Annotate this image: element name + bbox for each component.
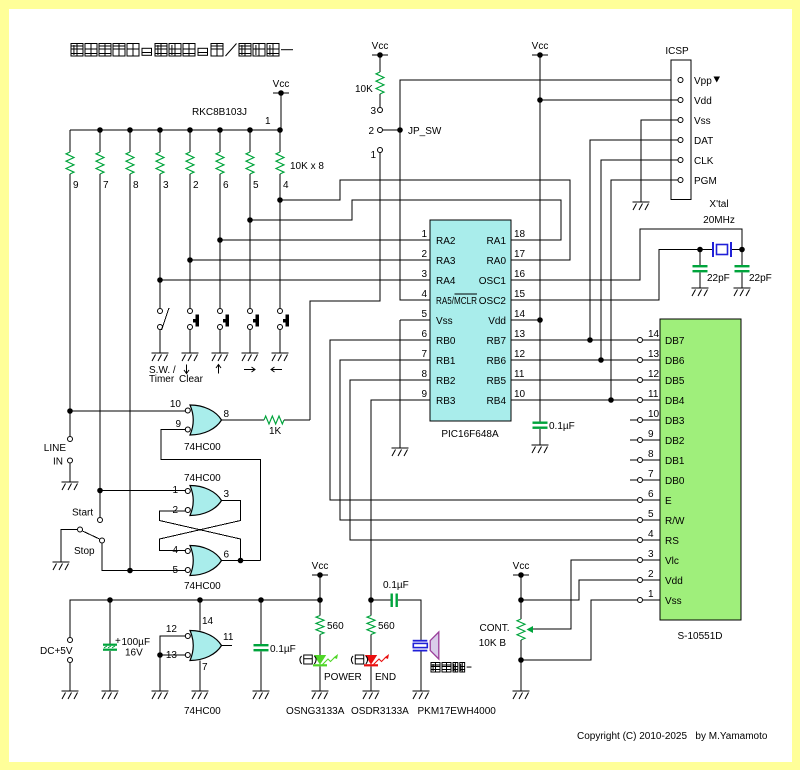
wire 100uF to ground <box>109 651 111 691</box>
Vcc symbol right <box>532 41 549 58</box>
wire switch to ground x=220 <box>219 330 221 353</box>
ground below gate D <box>192 691 209 699</box>
junction rail/gate D Vcc <box>197 597 203 603</box>
crystal X'tal symbol <box>712 242 732 257</box>
ICSP connector box <box>671 60 691 200</box>
wire switch to ground x=280 <box>279 330 281 353</box>
resistor 10K (network element 2) <box>186 152 194 174</box>
ground below 22pF <box>734 288 751 296</box>
svg-text:4: 4 <box>283 180 289 191</box>
svg-text:RB1: RB1 <box>436 356 456 367</box>
wire LCD pin DB4 stub <box>643 399 660 401</box>
svg-text:Vdd: Vdd <box>488 316 506 327</box>
svg-text:4: 4 <box>172 545 178 556</box>
svg-text:IN: IN <box>53 457 63 468</box>
wire row to RA2 (pin1) <box>220 239 430 241</box>
svg-text:PIC16F648A: PIC16F648A <box>441 429 499 440</box>
svg-text:DB5: DB5 <box>665 376 685 387</box>
wire col250 to RA1 (pin18) <box>250 200 561 240</box>
wire RB1 to LCD R/W <box>340 360 637 520</box>
wire col280 to RA0 (pin17) <box>280 180 570 260</box>
resistor 10K (network element 7) <box>96 152 104 174</box>
pot wiper arrow <box>527 626 534 633</box>
ground below switch x=190 <box>182 353 199 361</box>
svg-text:X'tal: X'tal <box>709 199 728 210</box>
svg-text:22pF: 22pF <box>749 273 772 284</box>
wire LCD Vdd to Vcc <box>521 580 637 600</box>
resistor 560 POWER <box>316 616 324 635</box>
junction col250/RA1 row <box>247 217 253 223</box>
junction RB3/END <box>368 597 374 603</box>
svg-text:4: 4 <box>648 529 654 540</box>
wire PGM to RB4 <box>611 180 678 400</box>
Vcc symbol above pot <box>513 561 530 578</box>
junction pot bottom/Vss <box>518 657 524 663</box>
JP_SW pin 1 <box>378 148 383 153</box>
NAND gate U1b 74HC00 <box>190 486 222 516</box>
wire rail to 100uF <box>109 600 111 644</box>
svg-text:OSC1: OSC1 <box>479 276 507 287</box>
wire gate D pin7 to ground <box>199 661 201 692</box>
wire RB6 to LCD DB6 <box>511 359 637 361</box>
wire toggle common to ground <box>61 530 77 563</box>
svg-text:DC+5V: DC+5V <box>40 646 73 657</box>
capacitor 22pF <box>693 265 708 272</box>
junction bus x=130 <box>127 127 133 133</box>
resistor 10K (network element 6) <box>216 152 224 174</box>
svg-text:11: 11 <box>648 389 659 400</box>
junction PGM/RB4 <box>608 397 614 403</box>
JP_SW pin 2 <box>378 128 383 133</box>
wire RB2 to LCD RS <box>350 380 637 540</box>
LED red END <box>364 654 389 666</box>
ICSP pin CLK <box>678 158 683 163</box>
svg-text:4: 4 <box>421 289 427 300</box>
wire col7 down to Start contact <box>99 174 101 517</box>
wire bus to resistor col 250 <box>249 130 251 152</box>
svg-text:10: 10 <box>514 389 526 400</box>
wire LED to ground <box>319 667 321 692</box>
svg-text:10: 10 <box>170 399 182 410</box>
switch top contact x=280 <box>278 309 283 314</box>
wire rail to 0.1uF <box>260 600 262 644</box>
wire Vss stub <box>400 319 430 321</box>
ground below POWER LED <box>312 691 329 699</box>
svg-text:PKM17EWH4000: PKM17EWH4000 <box>418 706 497 717</box>
svg-text:Stop: Stop <box>74 546 95 557</box>
ground below 0.1uF <box>253 691 270 699</box>
svg-text:10: 10 <box>648 409 660 420</box>
svg-text:RB2: RB2 <box>436 376 456 387</box>
junction LINE IN node <box>67 408 73 414</box>
wire ICSP Vss to ground <box>641 120 678 202</box>
wire LINE IN to gate A pin10 <box>70 410 185 412</box>
wire LCD pin RS stub <box>643 539 660 541</box>
svg-text:Vdd: Vdd <box>665 576 683 587</box>
svg-text:RA2: RA2 <box>436 236 456 247</box>
wire RB5 to LCD DB5 <box>511 379 637 381</box>
capacitor 22pF <box>735 265 750 272</box>
toggle lever S.W. <box>162 308 170 330</box>
wire col 190 down to switch <box>189 174 191 308</box>
junction crystal right <box>739 247 745 253</box>
ground below ICSP Vss <box>633 202 650 210</box>
wire gate A output to 1K <box>221 419 264 421</box>
svg-text:6: 6 <box>224 550 230 561</box>
svg-text:8: 8 <box>421 369 427 380</box>
resistor 1K <box>264 416 284 424</box>
svg-text:RB0: RB0 <box>436 336 456 347</box>
wire ICSP Vdd <box>540 99 678 101</box>
LCD pin R/W <box>638 518 643 523</box>
wire DAT to RB7 <box>590 140 678 340</box>
wire row to RA4 (pin3) <box>160 279 430 281</box>
NAND gate U1d 74HC00 <box>190 631 222 661</box>
wire gate A pin9 from gate C out <box>161 430 261 561</box>
svg-text:100µF: 100µF <box>122 637 151 648</box>
wire LCD pin DB2 stub <box>643 439 660 441</box>
svg-text:Vcc: Vcc <box>273 79 290 90</box>
label Vpp triangle <box>714 77 721 83</box>
wire DC jack to ground <box>69 663 71 691</box>
ground below switch x=220 <box>212 353 229 361</box>
wire open stub DB2 <box>630 439 637 441</box>
wire open stub DB0 <box>630 479 637 481</box>
wire Vpp/MCLR net <box>400 80 677 300</box>
svg-text:Vss: Vss <box>694 116 711 127</box>
svg-text:2: 2 <box>421 249 427 260</box>
wire open stub DB1 <box>630 459 637 461</box>
svg-text:OSDR3133A: OSDR3133A <box>351 706 409 717</box>
junction col8/Stop row <box>127 568 133 574</box>
svg-text:CONT.: CONT. <box>480 623 510 634</box>
wire Vcc column to Vdd <box>539 55 541 320</box>
wire LCD pin Vdd stub <box>643 579 660 581</box>
wire Vcc to pot <box>520 575 522 619</box>
svg-text:RKC8B103J: RKC8B103J <box>192 107 247 118</box>
svg-text:11: 11 <box>223 632 234 643</box>
svg-text:R/W: R/W <box>665 516 685 527</box>
svg-text:1: 1 <box>648 589 654 600</box>
svg-text:RA4: RA4 <box>436 276 456 287</box>
wire Vlc to pot wiper <box>532 560 637 629</box>
wire Vcc to bus <box>280 93 282 130</box>
svg-text:14: 14 <box>514 309 526 320</box>
junction rail end/Vcc <box>317 597 323 603</box>
svg-text:3: 3 <box>421 269 427 280</box>
svg-text:3: 3 <box>648 549 654 560</box>
svg-text:560: 560 <box>378 621 395 632</box>
svg-text:560: 560 <box>327 621 344 632</box>
junction crystal left <box>697 247 703 253</box>
switch bottom contact x=280 <box>278 325 283 330</box>
wire LCD Vss to pot bottom <box>521 600 637 660</box>
ground below decoupling cap <box>532 445 549 453</box>
svg-text:16V: 16V <box>125 648 143 659</box>
svg-text:Vcc: Vcc <box>513 561 530 572</box>
ground below LINE IN <box>62 482 79 490</box>
resistor 10K pull-up <box>376 72 384 94</box>
wire 0.1uF to ground <box>260 652 262 692</box>
svg-text:1K: 1K <box>269 426 282 437</box>
svg-text:7: 7 <box>421 349 427 360</box>
resistor 10K (network element 8) <box>126 152 134 174</box>
junction rail/100uF <box>107 597 113 603</box>
svg-text:DB3: DB3 <box>665 416 685 427</box>
wire RB3 down to END LED <box>371 400 430 600</box>
wire gate B pin2 cross-couple <box>160 511 241 561</box>
wire switch to ground x=160 <box>159 330 161 353</box>
svg-text:8: 8 <box>224 409 230 420</box>
svg-text:LINE: LINE <box>44 443 67 454</box>
LCD pin Vdd <box>638 578 643 583</box>
wire to 560 END <box>370 600 372 616</box>
svg-text:6: 6 <box>421 329 427 340</box>
LCD pin DB4 <box>638 398 643 403</box>
wire 10K to JP pin3 <box>379 94 381 107</box>
ICSP pin DAT <box>678 138 683 143</box>
junction DAT/RB7 <box>587 337 593 343</box>
svg-text:Copyright (C) 2010-2025 by M: Copyright (C) 2010-2025 by M.Yamamoto <box>577 731 768 742</box>
LCD pin DB7 <box>638 338 643 343</box>
svg-text:7: 7 <box>202 662 208 673</box>
svg-text:22pF: 22pF <box>707 273 730 284</box>
LCD pin DB5 <box>638 378 643 383</box>
svg-text:RA1: RA1 <box>487 236 507 247</box>
wire top bus of resistor network <box>70 129 281 131</box>
wire JP pin2 to junction <box>383 129 400 131</box>
junction col280/RA0 row <box>277 197 283 203</box>
wire gate C output <box>221 560 261 562</box>
wire pot to ground <box>520 640 522 691</box>
svg-text:DB6: DB6 <box>665 356 685 367</box>
switch top contact x=160 <box>158 309 163 314</box>
svg-text:1: 1 <box>265 116 271 127</box>
wire LCD pin DB5 stub <box>643 379 660 381</box>
wire OSC1 to crystal <box>511 229 742 280</box>
NAND gate U1a 74HC00 <box>190 405 222 435</box>
toggle lever Start/Stop <box>83 531 100 539</box>
junction Vcc/PIC Vdd <box>537 317 543 323</box>
svg-text:POWER: POWER <box>324 672 362 683</box>
svg-text:6: 6 <box>223 180 229 191</box>
svg-text:74HC00: 74HC00 <box>184 442 221 453</box>
svg-text:11: 11 <box>514 369 525 380</box>
wire LCD pin E stub <box>643 499 660 501</box>
svg-text:Vss: Vss <box>665 596 682 607</box>
junction Start node <box>97 488 103 494</box>
ground below switch x=280 <box>272 353 289 361</box>
ICSP pin Vpp <box>678 78 683 83</box>
wire LCD pin R/W stub <box>643 519 660 521</box>
label left arrow <box>271 367 282 372</box>
junction JP_SW node <box>397 127 403 133</box>
svg-text:3: 3 <box>163 180 169 191</box>
Stop contact <box>100 538 105 543</box>
wire RB7 to LCD DB7 <box>511 339 637 341</box>
wire col 220 down to switch <box>219 174 221 308</box>
svg-text:E: E <box>665 496 672 507</box>
potentiometer CONT 10K B <box>517 619 525 640</box>
svg-text:RA3: RA3 <box>436 256 456 267</box>
ground below PIC Vss <box>392 448 409 456</box>
svg-text:2: 2 <box>368 126 374 137</box>
ground below DC+5V <box>62 691 79 699</box>
wire rail to gate D pin14 <box>199 600 201 631</box>
svg-text:8: 8 <box>648 449 654 460</box>
svg-text:7: 7 <box>648 469 654 480</box>
switch bottom contact x=220 <box>218 325 223 330</box>
LCD pin Vlc <box>638 558 643 563</box>
wire bus to resistor col 160 <box>159 130 161 152</box>
capacitor 0.1uF <box>254 644 269 651</box>
svg-text:END: END <box>375 672 396 683</box>
wire CLK to RB6 <box>601 160 678 360</box>
svg-text:DB0: DB0 <box>665 476 685 487</box>
ground below switch x=160 <box>152 353 169 361</box>
svg-text:12: 12 <box>648 369 660 380</box>
wire gate D output stub <box>222 645 232 647</box>
wire crystal to 22pF x=742 <box>741 250 743 266</box>
wire open stub DB3 <box>630 419 637 421</box>
wire switch to ground x=250 <box>249 330 251 353</box>
wire Vdd stub <box>511 319 540 321</box>
svg-text:DAT: DAT <box>694 136 713 147</box>
capacitor 0.1uF buzzer coupling <box>391 594 398 608</box>
LCD module S-10551D body <box>660 319 741 620</box>
label down arrow <box>184 365 189 374</box>
switch top contact x=190 <box>188 309 193 314</box>
ICSP pin PGM <box>678 178 683 183</box>
wire 22pF to ground <box>699 273 701 289</box>
svg-text:10K x 8: 10K x 8 <box>290 161 324 172</box>
svg-text:DB4: DB4 <box>665 396 685 407</box>
wire LCD pin DB3 stub <box>643 419 660 421</box>
svg-text:Vss: Vss <box>436 316 453 327</box>
svg-text:17: 17 <box>514 249 526 260</box>
LCD pin E <box>638 498 643 503</box>
junction col160/RA4 row <box>157 277 163 283</box>
svg-text:RS: RS <box>665 536 679 547</box>
wire bus to resistor col 100 <box>99 130 101 152</box>
junction bus x=160 <box>157 127 163 133</box>
junction bus x=250 <box>247 127 253 133</box>
ICSP pin Vss <box>678 118 683 123</box>
junction bus x=100 <box>97 127 103 133</box>
wire switch to ground x=190 <box>189 330 191 353</box>
svg-text:2: 2 <box>193 180 199 191</box>
junction gate D inputs <box>157 652 163 658</box>
junction bus x=190 <box>187 127 193 133</box>
pushbutton actuator up <box>223 315 229 327</box>
svg-text:0.1µF: 0.1µF <box>549 421 575 432</box>
svg-text:RA5/MCLR: RA5/MCLR <box>436 296 477 307</box>
LCD pin DB2 <box>638 438 643 443</box>
svg-text:1: 1 <box>421 229 427 240</box>
wire LINE IN to ground <box>69 464 71 483</box>
svg-text:Vcc: Vcc <box>532 41 549 52</box>
svg-text:9: 9 <box>648 429 654 440</box>
Vcc symbol above 10K <box>372 41 389 58</box>
LCD pin Vss <box>638 598 643 603</box>
wire col 160 down to switch <box>159 174 161 308</box>
svg-text:RB7: RB7 <box>487 336 507 347</box>
ground below END LED <box>363 691 380 699</box>
wire col 250 down to switch <box>249 174 251 308</box>
wire bus to resistor col 190 <box>189 130 191 152</box>
wire LCD pin DB6 stub <box>643 359 660 361</box>
wire gate D pin12 tie <box>160 636 185 691</box>
junction Vcc/ICSP Vdd <box>537 97 543 103</box>
svg-text:Vlc: Vlc <box>665 556 679 567</box>
svg-text:18: 18 <box>514 229 526 240</box>
ground toggle <box>53 562 70 570</box>
wire 560 to LED <box>319 635 321 656</box>
wire bus to resistor col 70 <box>69 130 71 152</box>
svg-text:DB7: DB7 <box>665 336 685 347</box>
wire gate B out to gate C pin4 <box>160 501 241 551</box>
ground gate D inputs <box>152 691 169 699</box>
svg-text:RB5: RB5 <box>487 376 507 387</box>
switch bottom contact x=250 <box>248 325 253 330</box>
switch top contact x=250 <box>248 309 253 314</box>
switch bottom contact x=160 <box>158 325 163 330</box>
ground below 100uF <box>102 691 119 699</box>
ground below switch x=250 <box>242 353 259 361</box>
svg-text:Start: Start <box>72 508 93 519</box>
svg-text:9: 9 <box>175 419 181 430</box>
wire row to RA3 (pin2) <box>190 259 430 261</box>
svg-text:7: 7 <box>103 180 109 191</box>
wire Vcc rail to DC+5V <box>70 600 321 637</box>
LCD pin RS <box>638 538 643 543</box>
svg-text:9: 9 <box>421 389 427 400</box>
svg-text:10K: 10K <box>355 84 373 95</box>
svg-text:12: 12 <box>514 349 526 360</box>
LINE IN top jack <box>68 437 73 442</box>
wire buzzer to ground <box>420 652 422 692</box>
svg-text:14: 14 <box>648 329 660 340</box>
svg-text:Vdd: Vdd <box>694 96 712 107</box>
pushbutton actuator Clear <box>193 315 199 327</box>
junction pot top/Vdd <box>518 597 524 603</box>
svg-text:2: 2 <box>648 569 654 580</box>
svg-text:S-10551D: S-10551D <box>677 631 722 642</box>
LINE IN bottom jack <box>68 458 73 463</box>
junction col220/RA2 row <box>217 237 223 243</box>
svg-text:Clear: Clear <box>179 374 204 385</box>
IC PIC16F648A body <box>430 220 511 421</box>
wire Start row to gate B pin1 <box>100 490 185 492</box>
wire LCD pin Vlc stub <box>643 559 660 561</box>
wire col 280 down to switch <box>279 174 281 308</box>
wire Stop to gate C pin5 <box>102 544 185 571</box>
label piezo buzzer <box>431 663 471 673</box>
wire Vcc to 10K <box>379 55 381 72</box>
switch top contact x=220 <box>218 309 223 314</box>
svg-text:10K B: 10K B <box>479 638 507 649</box>
DC+5V top jack <box>68 638 73 643</box>
label up arrow <box>216 365 221 374</box>
junction rail/0.1uF <box>258 597 264 603</box>
wire LCD pin DB7 stub <box>643 339 660 341</box>
label right arrow <box>244 367 255 372</box>
Start contact <box>98 518 103 523</box>
wire 560 to red LED <box>370 635 372 656</box>
wire gate D pin13 tie <box>160 654 185 656</box>
svg-text:3: 3 <box>224 489 230 500</box>
LCD pin DB3 <box>638 418 643 423</box>
